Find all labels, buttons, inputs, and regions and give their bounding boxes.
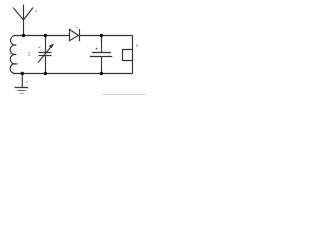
junction dot cap/bottom wire	[100, 72, 103, 75]
ground bar 3	[20, 93, 24, 95]
capacitor C2 plates	[90, 53, 112, 57]
earphone right vertical wire	[132, 36, 134, 74]
label tick above diode	[76, 27, 78, 29]
junction dot cap/top wire	[100, 34, 103, 37]
faint underline bottom right	[102, 94, 146, 96]
ground bar 1	[15, 87, 29, 89]
inductor L1	[10, 35, 17, 73]
ground stem	[21, 74, 23, 88]
capacitor C2 lead bottom	[101, 57, 103, 74]
junction dot varcap/top wire	[44, 34, 47, 37]
variable capacitor C1 plates	[39, 53, 52, 56]
label colon right of coil	[28, 52, 29, 53]
variable capacitor C1 arrow shaft	[38, 47, 51, 63]
diode D1 cathode bar	[79, 29, 81, 41]
variable capacitor C1 lead top	[45, 36, 47, 53]
wire top left segment	[16, 35, 69, 37]
label tick left of coil	[9, 53, 11, 54]
wire top right segment	[79, 35, 133, 37]
label plus capacitor	[96, 48, 98, 50]
label tick ground	[26, 81, 27, 83]
variable capacitor C1 lead bottom	[45, 56, 47, 74]
label tick earphone	[136, 45, 137, 47]
diode D1 triangle	[70, 29, 79, 40]
ground bar 2	[18, 90, 26, 92]
antenna	[13, 5, 33, 36]
junction dot antenna/top wire	[22, 34, 25, 37]
junction dot varcap/bottom wire	[44, 72, 47, 75]
junction dot ground/bottom wire	[21, 72, 24, 75]
capacitor C2 lead top	[101, 36, 103, 53]
earphone box	[123, 50, 133, 61]
wire bottom	[13, 73, 133, 75]
label tick near antenna	[35, 10, 37, 12]
variable capacitor arrowhead	[49, 44, 53, 48]
label tick varcap	[38, 47, 40, 48]
